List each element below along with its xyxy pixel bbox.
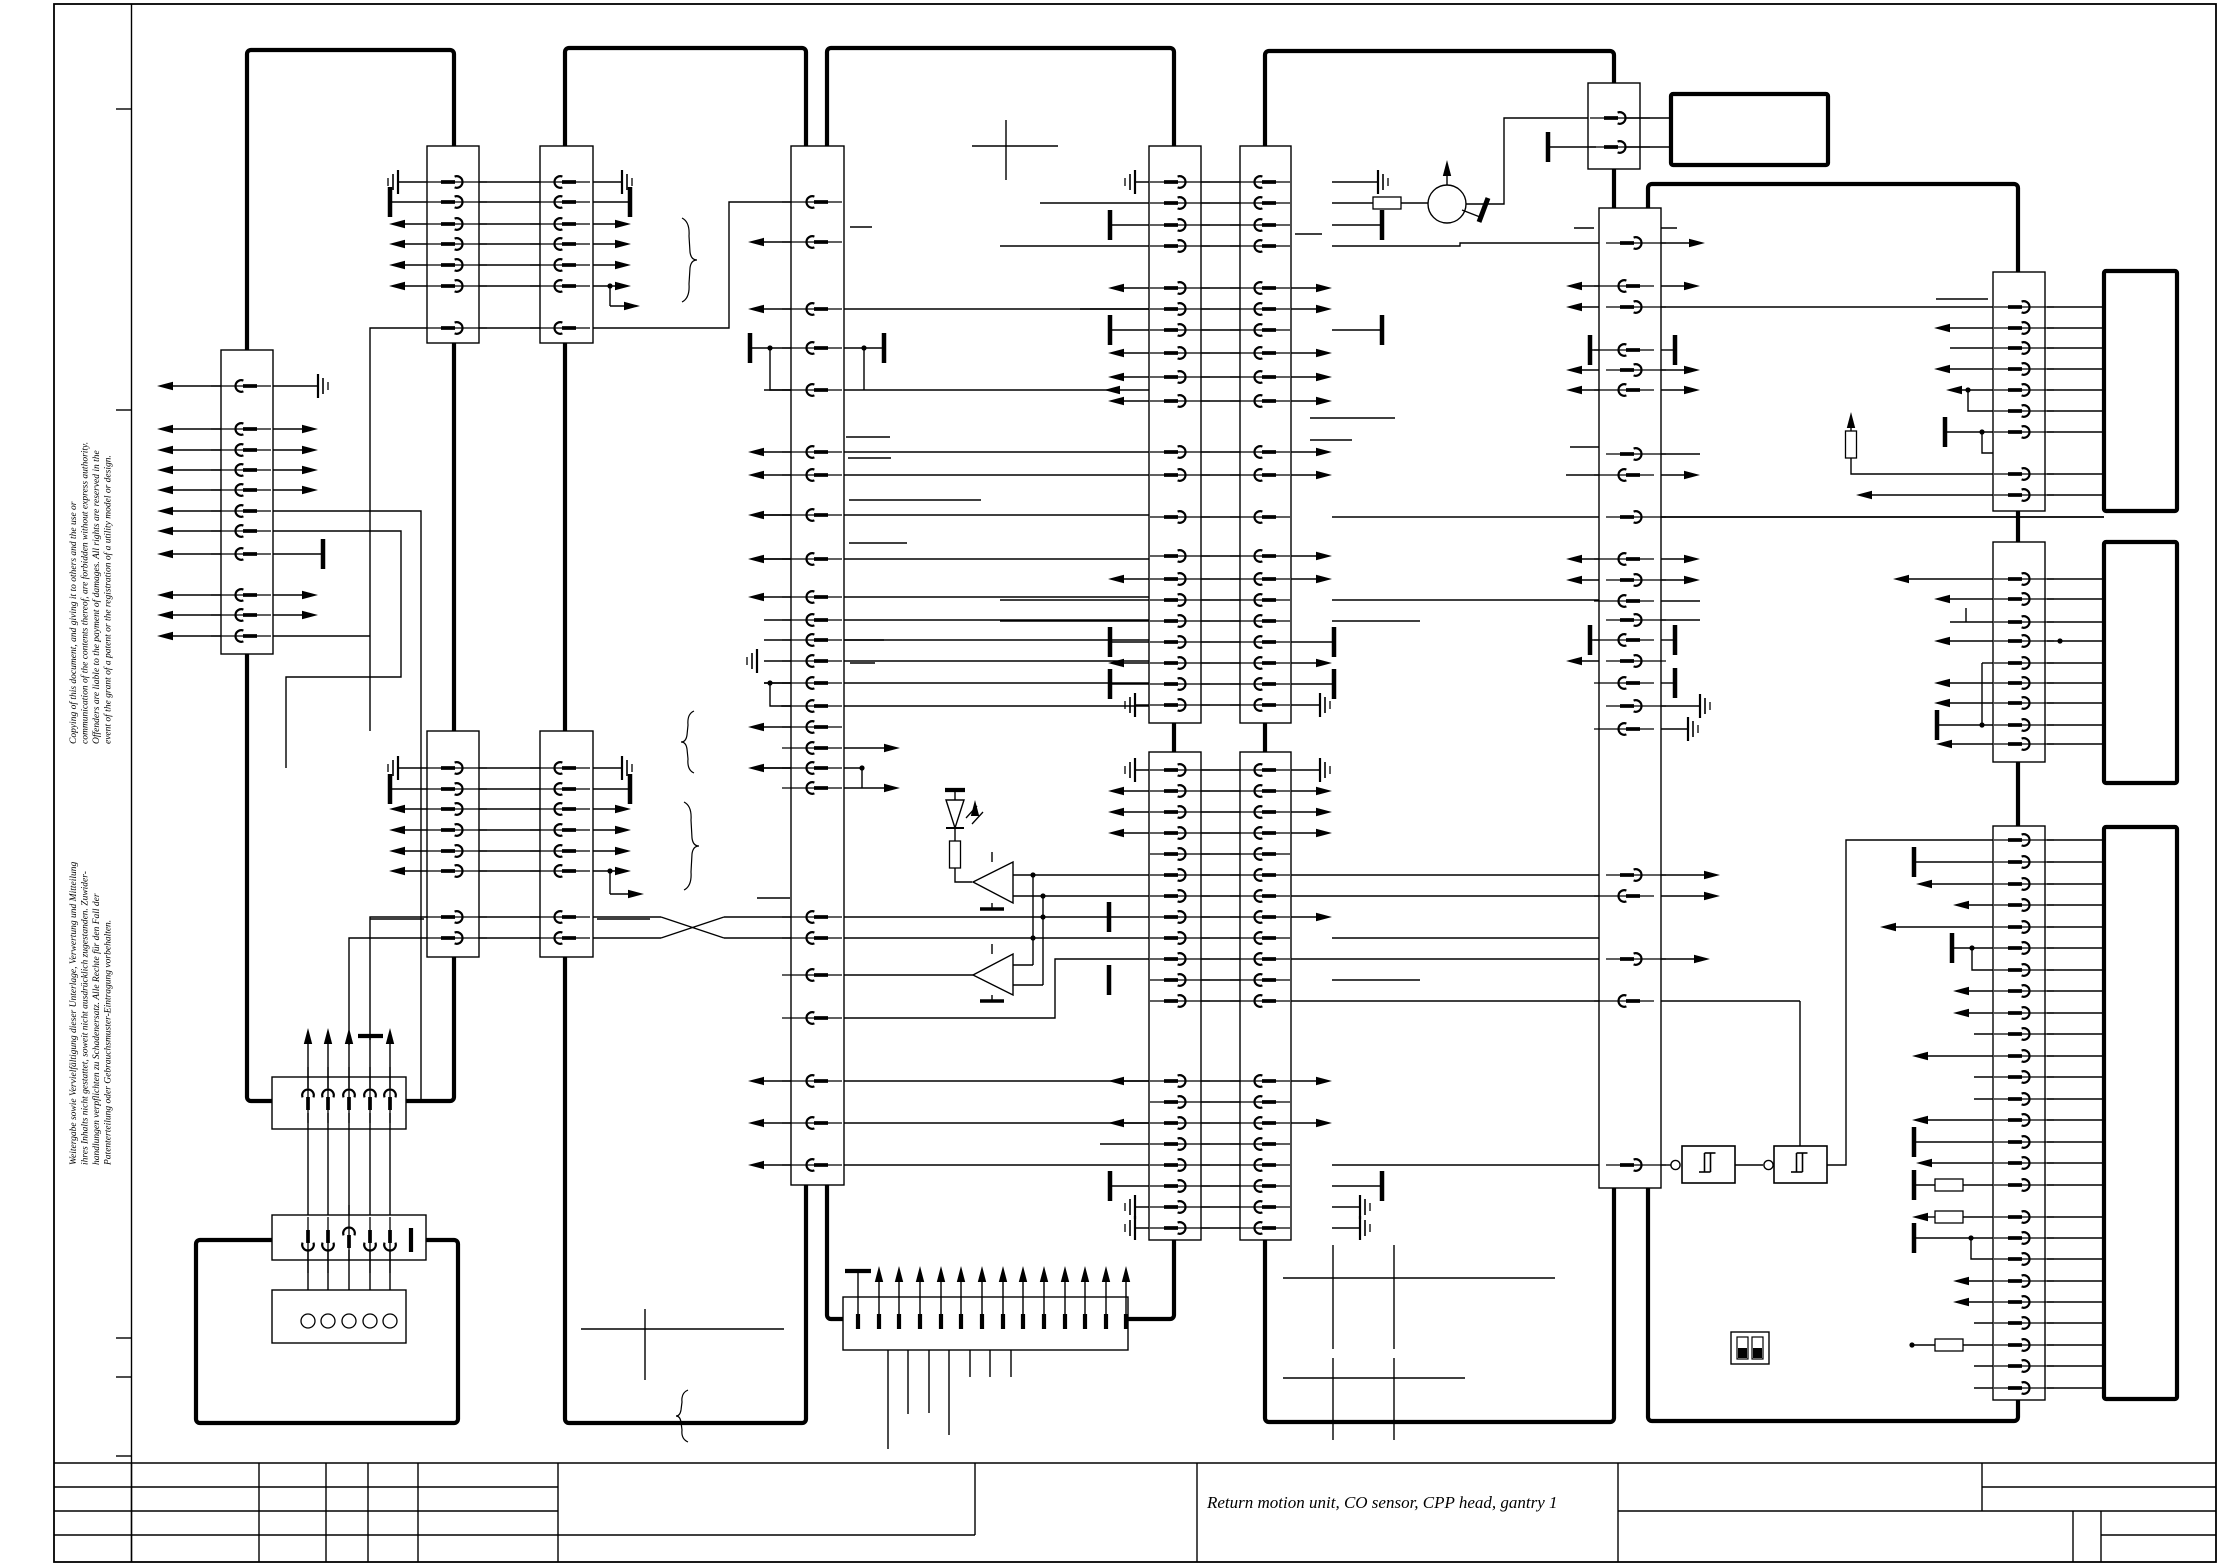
- terminator bars row 642: [1112, 641, 1160, 643]
- svg-text:Copying of this document, and: Copying of this document, and giving it …: [68, 501, 79, 744]
- module box A6 (CPP head gantry): [1648, 184, 2018, 1421]
- arrows rows 1081-1144: [1120, 1080, 1160, 1082]
- Schmitt trigger U1: [1671, 1160, 1680, 1169]
- junction branches left of X6 rows 683-788: [767, 680, 772, 685]
- harness brace (top): [682, 218, 697, 302]
- svg-text:Weitergabe sowie Vervielfältig: Weitergabe sowie Vervielfältigung dieser…: [68, 861, 79, 1165]
- connector X15: [1993, 542, 2045, 762]
- wires rows 875-1001 of X13: [1661, 874, 1708, 876]
- module box A1 (return motion unit left): [247, 50, 454, 1101]
- terminator bar row 980: [1107, 965, 1112, 995]
- terminal block X12 with socket circles: [272, 1290, 406, 1343]
- alignment cross (bottom left): [581, 1328, 784, 1330]
- ground at X3 pin 1: [263, 385, 318, 387]
- ground pair row 705: [1135, 704, 1160, 706]
- pins of connector X17: [856, 1314, 860, 1329]
- arrows out of X5 pins 3-6: [583, 808, 619, 810]
- wire from X3 pin 7 routed down-left: [263, 531, 401, 768]
- arrows row 663: [1120, 662, 1160, 664]
- wires from X4 pins 7-8 down to lower unit: [370, 917, 441, 1040]
- long signal wire row 246: [1000, 245, 1160, 247]
- branch with junction at X2 pin 6: [607, 283, 612, 288]
- svg-text:Patenterteilung oder Gebrauchs: Patenterteilung oder Gebrauchsmuster-Ein…: [104, 920, 114, 1166]
- net label dashes at crossover: [370, 918, 424, 920]
- resistor R4 row 1185: [1912, 1170, 1917, 1200]
- wire from R1 to buffer V1: [955, 868, 972, 882]
- net stubs near X8: [1310, 417, 1395, 419]
- ground at X5 pin 1: [583, 767, 622, 769]
- wires between X11 and X12: [307, 1250, 309, 1316]
- resistor R3 with arrow (pull-up): [1850, 420, 1852, 431]
- ground pair rows 1207-1228: [1135, 1206, 1160, 1208]
- terminator bar at X5 pin 2: [583, 788, 628, 790]
- Schmitt trigger U2: [1764, 1160, 1773, 1169]
- margin copyright text (english): [68, 442, 114, 744]
- resistor R6 row 1345: [1909, 1342, 1914, 1347]
- module box A2 (bottom left unit): [196, 1240, 458, 1423]
- bar and branch rows 1238-1259: [1912, 1223, 1917, 1253]
- wires between X10 and X11: [307, 1113, 309, 1228]
- wires rows 938-1001 to mid-right: [1332, 937, 1599, 939]
- terminator bars row 684: [1112, 683, 1160, 685]
- resistor R2: [1373, 197, 1401, 209]
- wires left of connector X15: [1905, 578, 1993, 580]
- connector X1: [427, 146, 479, 343]
- terminator bar inside X11: [409, 1228, 413, 1252]
- wire from U2 up to connector X16 row 1: [1827, 840, 2000, 1165]
- arrow pairs rows 353-401: [1120, 352, 1160, 354]
- terminator bars network at X6 row 348: [748, 333, 753, 363]
- arrow pairs rows 791-833: [1120, 790, 1160, 792]
- svg-text:communication of the contents: communication of the contents thereof, a…: [80, 442, 91, 744]
- LED D1: [954, 790, 956, 800]
- stub wires below connector X17: [887, 1350, 889, 1449]
- arrow row 495 of X14: [1868, 494, 1993, 496]
- connector X3: [221, 350, 273, 654]
- wires left of connector X16: [1912, 847, 1917, 877]
- crossover of twisted pair to connector X6: [583, 916, 661, 918]
- arrows right of X3 pins 9-10: [263, 594, 306, 596]
- harness brace (bottom left): [676, 1390, 688, 1442]
- border fold tick marks: [116, 108, 132, 110]
- arrows out of X4 pins 3-6: [401, 808, 437, 810]
- svg-text:Return motion unit, CO sensor,: Return motion unit, CO sensor, CPP head,…: [1206, 1493, 1558, 1512]
- arrows out of X1 pins 3-6: [401, 223, 437, 225]
- wires and arrows above connector X17: [857, 1271, 859, 1314]
- component box U12 (right): [2104, 542, 2177, 783]
- wire bundle between connectors X1 and X2: [479, 181, 540, 183]
- wire from X3 pin 6 down to lower unit: [263, 511, 421, 1099]
- buffer V2: [973, 954, 1013, 995]
- arrows out of X2 pins 3-6: [583, 223, 619, 225]
- terminator bars at X7/X8 row 225: [1112, 224, 1160, 226]
- connector X2: [540, 146, 593, 343]
- harness brace (middle small): [681, 711, 694, 773]
- connector X17 (bottom centre): [843, 1297, 1128, 1350]
- border margin divider line: [131, 4, 133, 1562]
- terminator bar at X1 pin 2: [392, 201, 437, 203]
- arrow pairs rows 288-309: [1120, 287, 1160, 289]
- wires left of connector X14: [1936, 298, 1988, 300]
- long harness wires rows 1081-1165: [844, 1080, 1149, 1082]
- terminator bars row 330: [1112, 329, 1160, 331]
- module box A5: [1265, 51, 1614, 1422]
- arrow above motor M1: [1446, 172, 1448, 185]
- svg-text:handlungen verpflichten zu Sch: handlungen verpflichten zu Schadenersatz…: [91, 893, 102, 1165]
- connector X4: [427, 731, 479, 957]
- connector X7 (lower section): [1149, 752, 1201, 1240]
- connector X9: [1588, 83, 1640, 169]
- wires left/right of connector X13: [1661, 242, 1693, 244]
- resistor R5 row 1217: [1924, 1216, 1935, 1218]
- ground at X1 pin 1: [398, 181, 437, 183]
- wires and arrows above connector X10: [307, 1040, 309, 1088]
- connector X7 (upper section): [1149, 146, 1201, 723]
- buffer V1: [973, 862, 1013, 903]
- arrows out of connector X3 (left): [169, 385, 231, 387]
- wires from buffer V2 junctions: [1013, 964, 1033, 966]
- ground at buffer V1: [991, 903, 993, 908]
- bridge wire rows 663-725 of X15: [1981, 663, 1983, 725]
- DIP switch S1: [1731, 1332, 1769, 1364]
- connector X11 (horizontal): [272, 1215, 426, 1260]
- wire U1 to U2: [1735, 1164, 1763, 1166]
- title block table: [54, 1462, 2216, 1464]
- alignment cross (top centre): [972, 145, 1058, 147]
- motor M1 circle: [1401, 202, 1428, 204]
- wire from X1 pin 7 down left side: [370, 328, 437, 731]
- margin copyright text (german): [68, 861, 114, 1166]
- grounds right of X13: [1661, 705, 1700, 707]
- long wires to mid-right connector X13: [1000, 599, 1160, 601]
- connector X10 (horizontal): [272, 1077, 406, 1129]
- ground at X6 row 661: [756, 649, 758, 673]
- terminator bar above LED D1: [945, 788, 965, 792]
- harness wires between X6 and X7: [844, 308, 1149, 310]
- wire from buffer V2 to X6: [844, 974, 973, 976]
- long wire row 1165 to Schmitt chain: [1332, 1164, 1599, 1166]
- wires X9 to box U10: [1625, 117, 1671, 119]
- wire X6 row 1018 up to X7 row 956: [844, 959, 1149, 1018]
- arrows rows 1281-1302: [1965, 1280, 1993, 1282]
- connector X8 (lower section): [1240, 752, 1291, 1240]
- wire from motor M1 to connector X9: [1466, 118, 1595, 204]
- connector X8 (upper section): [1240, 146, 1291, 723]
- terminator bar at X4 pin 2: [392, 788, 437, 790]
- terminator bars row 1186: [1112, 1185, 1160, 1187]
- supply wire row 203 to resistor R2 and motor M1: [1040, 202, 1160, 204]
- arrows right of X3 pins 2-5: [263, 428, 306, 430]
- wires X16 to box U13: [2047, 839, 2104, 841]
- wire bundle between connectors X7 and X8: [1201, 181, 1240, 183]
- wire bundle between connectors X4 and X5: [479, 767, 540, 769]
- wires at X6 rows 390-683: [764, 389, 795, 391]
- component box U10 (top right): [1671, 94, 1828, 165]
- arrows at connector X6 rows: [760, 241, 795, 243]
- junction verticals of buffer outputs: [1032, 875, 1034, 965]
- terminator bar left of X9: [1546, 132, 1551, 162]
- connector X5: [540, 731, 593, 957]
- connector X6: [791, 146, 844, 1185]
- wire from X3 pin 11 to bus: [263, 635, 370, 637]
- terminator bar at X2 pin 2: [583, 201, 628, 203]
- component box U11 (right): [2104, 271, 2177, 511]
- ground at X4 pin 1: [398, 767, 437, 769]
- resistor R1 below LED: [954, 828, 956, 841]
- svg-text:ihres Inhalts nicht gestattet,: ihres Inhalts nicht gestattet, soweit ni…: [81, 871, 91, 1165]
- net stub labels near X6: [850, 226, 872, 228]
- module box A3: [565, 48, 806, 1423]
- ground at X2 pin 1: [583, 181, 622, 183]
- connector X14: [1993, 272, 2045, 511]
- branch with junction at X5 pin 6: [607, 868, 612, 873]
- actuator stroke at motor M1: [1462, 210, 1480, 217]
- svg-text:Offenders are liable to the pa: Offenders are liable to the payment of d…: [91, 450, 102, 744]
- alignment cross group (bottom middle): [1283, 1277, 1555, 1279]
- component box U13 (right): [2104, 827, 2177, 1399]
- terminator bar row 917: [1107, 902, 1112, 932]
- terminator bar at X3 pin 8: [263, 553, 321, 555]
- ground at X6 row 640: [844, 639, 884, 641]
- wires from buffer V1 to X7: [1013, 874, 1149, 876]
- connector X13: [1599, 208, 1661, 1188]
- ground pair at X7/X8 row 182: [1135, 181, 1160, 183]
- Schmitt trigger chain from X13 row 1164: [1661, 1164, 1671, 1166]
- ground pair row 770: [1135, 769, 1160, 771]
- arrows right rows 875-896: [1291, 874, 1599, 876]
- svg-text:event of the grant of a patent: event of the grant of a patent or the re…: [103, 455, 114, 744]
- ground at buffer V2: [991, 995, 993, 1000]
- connector X16: [1993, 826, 2045, 1400]
- module box A4: [827, 48, 1174, 1319]
- wires group B right of X8: [1291, 451, 1320, 453]
- wires X15 to box U12: [2047, 578, 2104, 580]
- wires X14 to box U11: [2047, 306, 2104, 308]
- harness brace (middle): [684, 802, 699, 890]
- wire from X2 pin 7 up to bus: [583, 202, 791, 328]
- terminator bar above X10 pin 4: [358, 1034, 383, 1038]
